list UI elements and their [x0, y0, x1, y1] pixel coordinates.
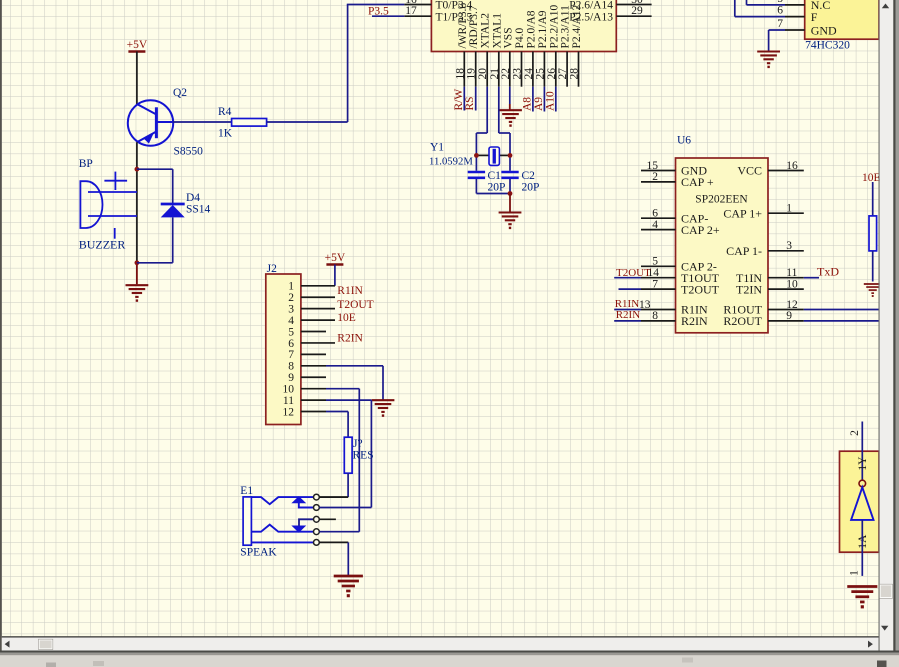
svg-text:RS: RS	[464, 96, 476, 110]
svg-text:RES: RES	[353, 450, 374, 462]
svg-text:20: 20	[477, 68, 489, 80]
svg-text:23: 23	[512, 68, 524, 80]
svg-text:T2OUT: T2OUT	[616, 267, 651, 279]
svg-text:11: 11	[283, 395, 294, 407]
svg-text:1K: 1K	[218, 128, 233, 140]
svg-text:22: 22	[500, 68, 512, 80]
svg-text:TxD: TxD	[817, 265, 839, 279]
svg-text:18: 18	[454, 68, 466, 80]
svg-text:A8: A8	[521, 97, 533, 111]
svg-text:5: 5	[652, 256, 658, 268]
svg-text:26: 26	[546, 68, 558, 80]
svg-text:11.0592M: 11.0592M	[429, 156, 473, 168]
svg-text:C1: C1	[488, 170, 502, 182]
svg-text:R2IN: R2IN	[681, 314, 708, 328]
svg-text:1: 1	[288, 281, 294, 293]
svg-text:9: 9	[288, 372, 294, 384]
svg-text:R2IN: R2IN	[337, 333, 363, 345]
svg-text:1: 1	[849, 570, 861, 576]
svg-text:16: 16	[786, 160, 798, 172]
svg-text:9: 9	[786, 310, 792, 322]
svg-text:P4.0: P4.0	[514, 27, 526, 48]
svg-text:CAP 1+: CAP 1+	[723, 206, 762, 220]
svg-text:GND: GND	[811, 23, 837, 37]
svg-text:17: 17	[405, 5, 417, 17]
svg-text:7: 7	[652, 278, 658, 290]
svg-text:U6: U6	[677, 135, 691, 147]
svg-text:74HC320: 74HC320	[805, 40, 850, 52]
svg-text:15: 15	[647, 160, 659, 172]
svg-text:25: 25	[534, 68, 546, 80]
svg-text:6: 6	[288, 338, 294, 350]
svg-text:J?: J?	[353, 438, 363, 450]
svg-text:SS14: SS14	[186, 204, 211, 216]
svg-text:CAP 1-: CAP 1-	[726, 244, 762, 258]
svg-text:P2.1/A9: P2.1/A9	[537, 10, 549, 48]
svg-text:4: 4	[652, 219, 658, 231]
svg-text:T2OUT: T2OUT	[337, 299, 373, 311]
svg-text:28: 28	[569, 68, 581, 80]
svg-text:P2.2/A10: P2.2/A10	[548, 4, 560, 48]
svg-text:5: 5	[288, 326, 294, 338]
svg-text:4: 4	[288, 315, 294, 327]
svg-text:10E: 10E	[337, 312, 356, 324]
svg-text:1: 1	[786, 203, 792, 215]
svg-text:A10: A10	[544, 91, 556, 111]
svg-text:Q2: Q2	[173, 87, 187, 99]
svg-text:+5V: +5V	[325, 252, 346, 264]
svg-text:R/W: R/W	[453, 89, 465, 111]
svg-text:19: 19	[466, 68, 478, 80]
svg-text:R2OUT: R2OUT	[723, 314, 762, 328]
svg-text:12: 12	[786, 299, 798, 311]
svg-text:20P: 20P	[522, 182, 540, 194]
svg-text:/RD/P3.7: /RD/P3.7	[468, 5, 480, 48]
svg-text:7: 7	[777, 18, 783, 30]
svg-text:D4: D4	[186, 192, 200, 204]
svg-text:3: 3	[288, 303, 294, 315]
svg-text:F: F	[811, 10, 818, 24]
svg-text:10: 10	[283, 383, 295, 395]
svg-text:R4: R4	[218, 106, 232, 118]
svg-text:T2OUT: T2OUT	[681, 282, 720, 296]
svg-text:2: 2	[849, 430, 861, 436]
svg-text:P3.5: P3.5	[368, 6, 389, 18]
svg-text:1Y: 1Y	[857, 456, 869, 471]
svg-text:/WR/P3.6: /WR/P3.6	[457, 3, 469, 49]
svg-text:CAP +: CAP +	[681, 175, 714, 189]
svg-text:24: 24	[523, 68, 535, 80]
svg-text:SPEAK: SPEAK	[240, 547, 277, 559]
svg-text:T2IN: T2IN	[736, 282, 762, 296]
svg-text:R1IN: R1IN	[337, 285, 363, 297]
svg-text:CAP 2+: CAP 2+	[681, 223, 720, 237]
svg-text:10: 10	[786, 278, 798, 290]
svg-text:BUZZER: BUZZER	[79, 238, 126, 252]
svg-text:+5V: +5V	[127, 39, 148, 51]
svg-text:20P: 20P	[488, 182, 506, 194]
svg-text:11: 11	[786, 267, 797, 279]
svg-text:2: 2	[652, 171, 658, 183]
svg-text:12: 12	[283, 406, 295, 418]
svg-text:Y1: Y1	[430, 142, 444, 154]
svg-text:8: 8	[652, 310, 658, 322]
svg-text:7: 7	[288, 349, 294, 361]
svg-text:2: 2	[288, 292, 294, 304]
svg-text:29: 29	[631, 5, 643, 17]
svg-text:BP: BP	[79, 158, 93, 170]
svg-text:R2IN: R2IN	[616, 309, 641, 321]
svg-text:SP202EEN: SP202EEN	[695, 194, 748, 206]
svg-text:6: 6	[652, 208, 658, 220]
svg-text:XTAL2: XTAL2	[480, 13, 492, 49]
svg-text:8: 8	[288, 361, 294, 373]
svg-text:C2: C2	[522, 170, 536, 182]
svg-text:3: 3	[786, 240, 792, 252]
svg-text:A9: A9	[533, 97, 545, 111]
svg-text:P2.3/A11: P2.3/A11	[560, 5, 572, 49]
svg-text:VCC: VCC	[737, 164, 762, 178]
svg-text:27: 27	[557, 68, 569, 80]
svg-text:10E: 10E	[862, 172, 881, 184]
svg-text:P2.4/A12: P2.4/A12	[571, 4, 583, 48]
svg-text:VSS: VSS	[502, 27, 514, 48]
svg-text:P2.0/A8: P2.0/A8	[525, 10, 537, 48]
svg-text:S8550: S8550	[174, 146, 204, 158]
svg-text:E1: E1	[240, 485, 253, 497]
svg-text:J2: J2	[267, 263, 277, 275]
svg-text:6: 6	[777, 5, 783, 17]
